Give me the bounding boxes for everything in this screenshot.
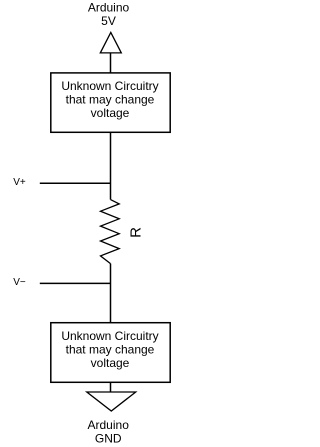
- svg-text:Unknown Circuitry: Unknown Circuitry: [61, 79, 158, 93]
- resistor R: [101, 200, 120, 264]
- svg-text:GND: GND: [95, 432, 122, 446]
- svg-text:that may change: that may change: [66, 92, 155, 106]
- box U2: Unknown Circuitry (bottom): [51, 323, 170, 383]
- power symbol 5V (up triangle): [100, 32, 121, 53]
- wire: 5V symbol to U1 top: [110, 53, 112, 73]
- svg-text:R: R: [127, 227, 144, 238]
- wire: resistor bottom to U2 top: [110, 264, 112, 323]
- wire: V- tap: [40, 282, 111, 284]
- svg-text:voltage: voltage: [91, 106, 130, 120]
- svg-text:5V: 5V: [101, 14, 116, 28]
- svg-text:Arduino: Arduino: [88, 1, 130, 15]
- svg-text:V−: V−: [13, 277, 26, 288]
- wire: U1 bottom to resistor top: [110, 132, 112, 199]
- wire: U2 bottom to GND symbol: [110, 382, 112, 392]
- svg-text:Unknown Circuitry: Unknown Circuitry: [61, 329, 158, 343]
- wire: V+ tap: [40, 182, 111, 184]
- ground symbol (down triangle): [87, 392, 136, 411]
- svg-text:voltage: voltage: [91, 356, 130, 370]
- svg-text:Arduino: Arduino: [88, 418, 130, 432]
- svg-text:that may change: that may change: [66, 342, 155, 356]
- box U1: Unknown Circuitry (top): [51, 73, 170, 132]
- svg-text:V+: V+: [13, 177, 26, 188]
